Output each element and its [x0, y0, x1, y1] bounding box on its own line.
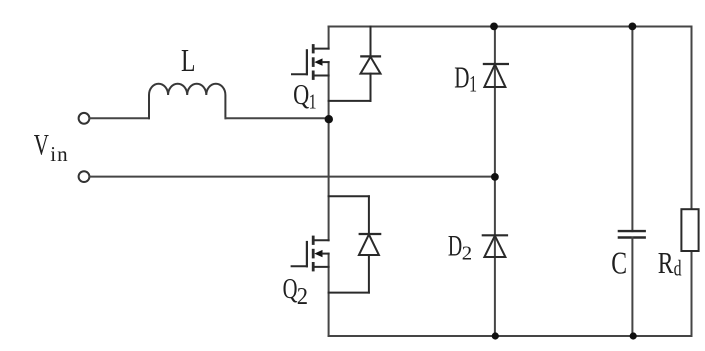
D2 triangle [484, 236, 505, 257]
Q1 body arrow [314, 58, 322, 65]
svg-text:1: 1 [309, 91, 317, 115]
mosfet Q2 [292, 237, 329, 270]
Q2 channel segments [312, 237, 315, 244]
svg-text:in: in [50, 142, 68, 166]
Q1 gate lead [292, 73, 307, 75]
body diode of Q2 [329, 196, 381, 292]
svg-text:2: 2 [462, 243, 472, 265]
diode D1 [484, 64, 508, 87]
svg-text:D: D [448, 229, 462, 262]
resistor Rd (box) [681, 209, 698, 251]
node B junction dot middle rail / D column [491, 173, 499, 181]
terminal Vin- (open circle) [79, 171, 90, 182]
Q2 source lead [313, 266, 328, 268]
Q2 drain lead [313, 239, 328, 241]
mosfet Q1 [292, 46, 329, 79]
svg-text:Q: Q [283, 274, 298, 305]
svg-text:1: 1 [469, 72, 477, 98]
Q2 body arrow [314, 250, 322, 257]
diode Q2 triangle [359, 234, 379, 255]
wire top rail [329, 26, 692, 28]
body diode of Q1 [329, 27, 381, 101]
capacitor C plates [619, 231, 645, 237]
svg-text:R: R [658, 245, 674, 280]
wire capacitor column top [631, 27, 633, 232]
wire Q1 source to diode anode [329, 100, 371, 102]
Q1 arrow tail [323, 61, 329, 63]
wire main column: Q1 arrow tail down through node A, crossing, to Q2 drain [328, 62, 330, 240]
D1 triangle [484, 64, 505, 87]
D1 cathode bar [484, 63, 508, 65]
wire right column (Rd branch) [691, 27, 693, 337]
Q1 source lead [313, 75, 328, 77]
svg-text:C: C [611, 246, 627, 281]
diode Q1 column bottom [370, 74, 372, 101]
wire Vin+ to inductor [90, 117, 149, 119]
Q2 gate bar [306, 242, 308, 266]
diode Q2 column bottom [368, 255, 370, 293]
diode Q1 triangle [361, 57, 381, 74]
Q1 drain lead [313, 48, 328, 50]
wire Vin- to node B (middle rail) [90, 176, 495, 178]
node A junction dot (inductor / Q1 source / Q2 drain) [325, 115, 333, 123]
svg-text:D: D [454, 59, 469, 94]
Q2 gate lead [292, 265, 307, 267]
diode Q1 cathode bar [361, 55, 380, 57]
wire capacitor column bottom [631, 238, 633, 337]
wire bottom rail [329, 335, 692, 337]
node junction dot top rail / D1 [490, 23, 498, 31]
node junction dot top rail / C [629, 23, 637, 31]
svg-text:d: d [674, 257, 682, 281]
svg-text:Q: Q [293, 78, 309, 110]
terminal Vin+ (open circle) [79, 113, 90, 124]
svg-text:2: 2 [297, 283, 308, 310]
Q1 channel segments [312, 46, 315, 53]
diode Q2 cathode bar [360, 233, 381, 235]
node junction dot bottom rail / D2 [492, 332, 499, 339]
Q1 gate bar [306, 50, 308, 74]
D2 cathode bar [483, 234, 507, 236]
diode Q2 column top [368, 196, 370, 234]
wire D1/D2 column [494, 27, 496, 337]
wire Q2 source to diode anode [329, 292, 369, 294]
svg-text:V: V [34, 128, 49, 162]
diode D2 [483, 235, 507, 257]
svg-text:L: L [181, 44, 195, 79]
diode Q1 anode-cathode column top [370, 27, 372, 57]
wire Q1 drain stub (rail down to drain) [328, 27, 330, 49]
wire Q2 source column down to bottom rail [328, 254, 330, 336]
wire Q2 drain to diode cathode [329, 195, 369, 197]
Q2 arrow tail [323, 253, 329, 255]
inductor L [149, 84, 225, 119]
wire inductor to node A [226, 117, 329, 119]
node junction dot bottom rail / C [630, 332, 637, 339]
